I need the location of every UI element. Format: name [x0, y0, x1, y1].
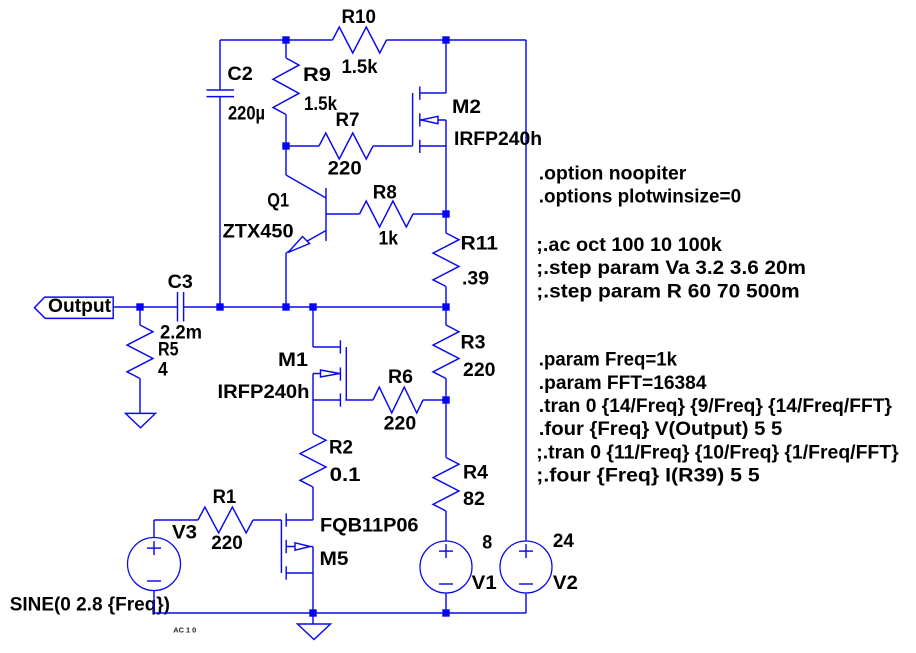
transistor M2 source lead	[420, 145, 446, 147]
svg-text:R2: R2	[329, 438, 353, 459]
resistor R1	[154, 519, 198, 521]
junction at (313,307)	[309, 303, 316, 310]
junction at (446,40)	[442, 36, 449, 43]
svg-text:.options plotwinsize=0: .options plotwinsize=0	[539, 187, 741, 208]
svg-text:ZTX450: ZTX450	[223, 221, 294, 242]
svg-text:8: 8	[482, 533, 492, 554]
svg-text:R4: R4	[463, 463, 488, 484]
svg-text:R11: R11	[461, 234, 499, 255]
wire top rail right segment	[387, 39, 527, 41]
svg-text:220: 220	[384, 414, 417, 435]
svg-text:1k: 1k	[379, 229, 399, 250]
junction at (446,400)	[442, 396, 449, 403]
voltage source V1	[420, 541, 472, 593]
junction at (220,307)	[216, 303, 223, 310]
resistor R10	[333, 27, 387, 53]
transistor M5 channel stubs	[285, 513, 287, 526]
svg-text:IRFP240h: IRFP240h	[454, 129, 542, 150]
svg-text:1.5k: 1.5k	[342, 57, 378, 78]
svg-text:;.tran 0 {11/Freq} {10/Freq} {: ;.tran 0 {11/Freq} {10/Freq} {1/Freq/FFT…	[536, 442, 899, 463]
resistor R3	[445, 307, 447, 325]
svg-text:220: 220	[211, 533, 243, 554]
transistor M5 source lead	[286, 519, 313, 521]
svg-text:C3: C3	[168, 272, 193, 293]
transistor M1 source lead	[313, 399, 341, 401]
wire V2 bottom	[525, 593, 527, 613]
transistor Q1 emitter	[286, 231, 326, 254]
transistor M5 body arrow	[295, 543, 310, 550]
resistor R8	[360, 201, 414, 227]
svg-text:M2: M2	[452, 97, 481, 118]
svg-text:R9: R9	[303, 65, 331, 86]
wire R7 left lead	[286, 145, 319, 147]
svg-text:R6: R6	[388, 367, 413, 388]
svg-text:.option noopiter: .option noopiter	[539, 163, 687, 184]
transistor M2 drain lead	[420, 92, 446, 94]
transistor M1 drain lead	[312, 307, 314, 347]
transistor M2 gate line	[412, 93, 414, 146]
svg-text:IRFP240h: IRFP240h	[218, 382, 310, 403]
transistor Q1 base lead	[326, 213, 360, 215]
junction at (313,613)	[309, 609, 316, 616]
svg-text:82: 82	[463, 489, 485, 510]
svg-text:0.1: 0.1	[330, 465, 361, 486]
capacitor C3	[177, 292, 179, 322]
transistor Q1 emitter arrow	[288, 237, 310, 253]
svg-text:SINE(0 2.8 {Freq}): SINE(0 2.8 {Freq})	[10, 594, 170, 615]
wire M1 gate to R6	[345, 399, 373, 401]
junction at (140,307)	[136, 303, 143, 310]
svg-text:220: 220	[463, 360, 496, 381]
svg-text:220: 220	[328, 159, 362, 180]
resistor R2	[312, 400, 314, 434]
svg-text:.param Freq=1k: .param Freq=1k	[539, 350, 678, 371]
junction at (286,40)	[282, 36, 289, 43]
svg-text:;.step param R 60 70 500m: ;.step param R 60 70 500m	[536, 281, 799, 302]
junction at (446,613)	[442, 609, 449, 616]
resistor R9	[285, 40, 287, 58]
flag Output	[34, 297, 113, 318]
transistor Q1 base bar	[325, 188, 327, 241]
svg-text:4: 4	[158, 360, 168, 381]
transistor M1 body lead	[313, 373, 340, 375]
svg-text:R1: R1	[213, 487, 237, 508]
resistor R6	[373, 387, 423, 413]
svg-text:V2: V2	[553, 573, 578, 594]
resistor R5	[139, 307, 141, 325]
junction at (446,214)	[442, 210, 449, 217]
transistor M5 drain lead	[286, 572, 313, 574]
svg-text:.four {Freq} V(Output) 5 5: .four {Freq} V(Output) 5 5	[539, 419, 783, 440]
svg-text:Q1: Q1	[267, 191, 289, 212]
transistor M1 body arrow	[321, 370, 340, 377]
wire output to C3	[114, 306, 178, 308]
svg-text:.tran 0 {14/Freq} {9/Freq} {14: .tran 0 {14/Freq} {9/Freq} {14/Freq/FFT}	[539, 396, 893, 417]
svg-text:M1: M1	[278, 350, 308, 371]
svg-text:R8: R8	[373, 182, 397, 203]
svg-text:M5: M5	[320, 549, 349, 570]
wire bottom rail	[154, 612, 446, 614]
wire right rail	[525, 40, 527, 541]
voltage source V2	[500, 541, 552, 593]
voltage source V3	[128, 538, 181, 591]
capacitor C2	[219, 40, 221, 90]
svg-text:FQB11P06: FQB11P06	[320, 516, 419, 537]
svg-text:R3: R3	[461, 333, 486, 354]
svg-text:R10: R10	[342, 7, 376, 28]
transistor Q1 collector	[285, 146, 287, 175]
svg-text:.param FFT=16384: .param FFT=16384	[539, 373, 707, 394]
svg-text:AC 1 0: AC 1 0	[173, 628, 196, 635]
transistor M1 gate line	[345, 347, 347, 400]
ground at bottom	[312, 613, 314, 624]
svg-text:;.ac oct 100 10 100k: ;.ac oct 100 10 100k	[536, 235, 722, 256]
wire V3 bottom	[153, 591, 155, 614]
svg-text:24: 24	[553, 531, 574, 552]
resistor R11	[445, 214, 447, 233]
svg-text:;.four {Freq} I(R39) 5 5: ;.four {Freq} I(R39) 5 5	[536, 466, 760, 487]
wire V3 to R1	[153, 520, 155, 538]
svg-text:R5: R5	[158, 340, 179, 361]
junction at (446,307)	[442, 303, 449, 310]
wire top rail left segment	[220, 39, 333, 41]
svg-text:C2: C2	[227, 64, 252, 85]
transistor M2 channel stubs	[419, 87, 421, 100]
transistor M5 gate line	[280, 520, 282, 573]
svg-text:1.5k: 1.5k	[304, 94, 337, 115]
resistor R4	[445, 400, 447, 458]
transistor M2 body arrow	[421, 116, 438, 123]
junction at (286,307)	[282, 303, 289, 310]
transistor M5 body lead	[286, 546, 313, 548]
transistor M1 channel stubs	[339, 340, 341, 353]
junction at (286,146)	[282, 142, 289, 149]
wire V1 bottom	[445, 593, 447, 613]
svg-text:.39: .39	[462, 269, 489, 290]
ground under R5	[126, 413, 156, 427]
svg-text:;.step param Va 3.2 3.6 20m: ;.step param Va 3.2 3.6 20m	[536, 258, 806, 279]
transistor M2 body lead	[420, 119, 446, 121]
svg-text:R7: R7	[336, 110, 360, 131]
svg-text:Output: Output	[48, 296, 112, 317]
svg-text:V3: V3	[172, 523, 197, 544]
svg-text:220µ: 220µ	[228, 104, 265, 125]
svg-text:V1: V1	[472, 573, 497, 594]
wire mid rail	[184, 306, 446, 308]
resistor R7	[319, 133, 373, 159]
